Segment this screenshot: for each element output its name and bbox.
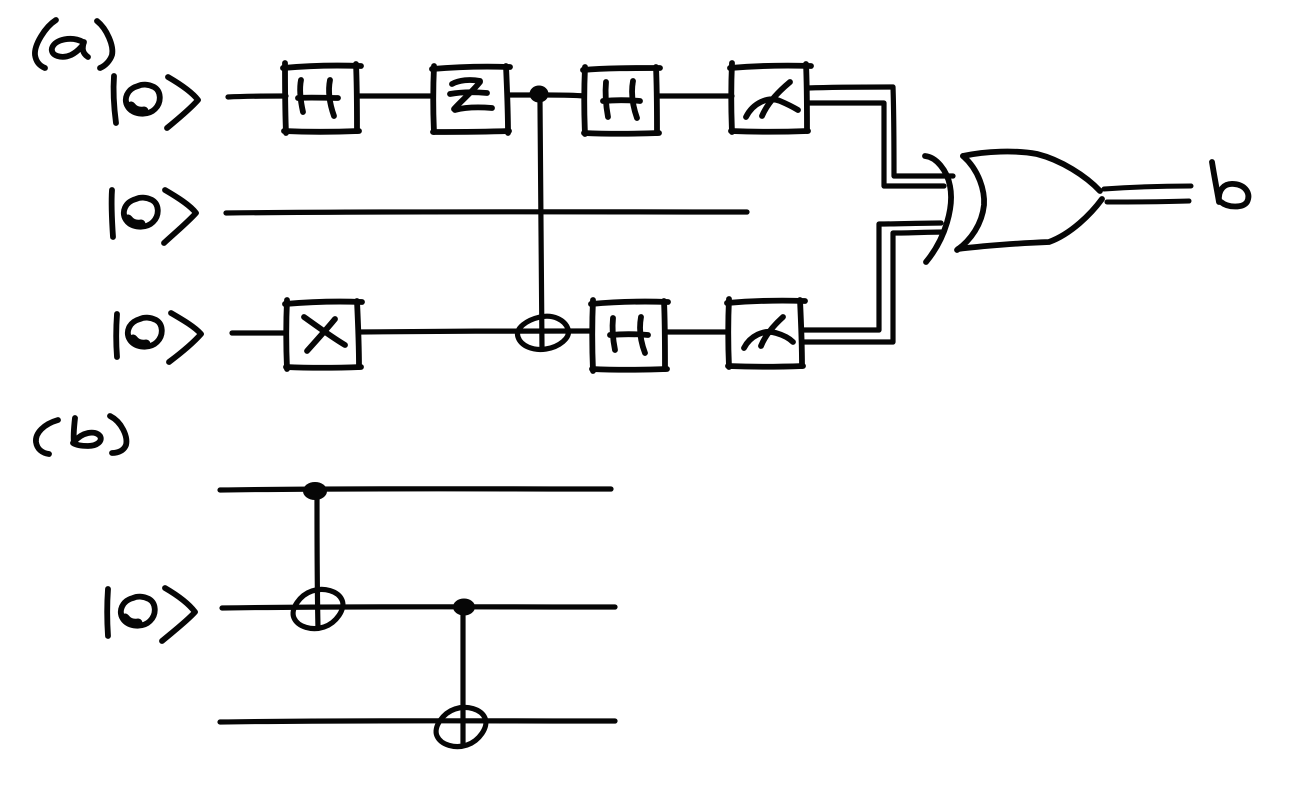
measurement M1 box	[730, 63, 811, 132]
(b) wire line 1	[220, 489, 611, 490]
classical double wire from M1 (outer)	[808, 87, 953, 176]
measurement M2 box	[727, 299, 805, 367]
(b) control dot 1	[303, 482, 327, 500]
classical double wire from M2 (inner)	[803, 232, 944, 342]
wire q3 seg3	[665, 329, 728, 334]
gate Z box	[432, 66, 510, 133]
output label b	[1212, 162, 1248, 207]
wire q1 seg4	[548, 95, 584, 96]
gate H1 box	[283, 63, 361, 133]
ket |0> qubit 2	[112, 190, 196, 243]
measurement M1 dial	[746, 82, 798, 117]
control dot CZ/CNOT	[530, 86, 549, 103]
wire q1 seg3	[508, 92, 531, 97]
wire q1 seg1	[228, 96, 286, 97]
gate H3 letter	[610, 317, 648, 353]
measurement M2 dial	[744, 317, 793, 348]
wire q3 seg1	[232, 330, 286, 335]
wire q1 seg2	[357, 93, 433, 98]
control vertical wire	[540, 102, 542, 349]
gate X box	[285, 300, 362, 369]
gate H2 letter	[603, 81, 640, 118]
ket |0> qubit 1	[114, 76, 198, 128]
label (b)	[36, 416, 126, 454]
gate X letter	[304, 317, 345, 351]
ket |0> qubit 3	[116, 313, 201, 362]
(b) ket |0>	[107, 588, 195, 641]
classical double wire from M1 (inner)	[808, 103, 944, 186]
XOR gate bottom edge	[958, 199, 1102, 249]
label (a)	[35, 20, 112, 68]
(b) control dot 2	[453, 599, 475, 616]
classical double wire from M2 (outer)	[803, 223, 941, 330]
(b) wire line 3	[220, 721, 615, 722]
(b) wire line 2	[222, 607, 615, 608]
wire q2	[226, 212, 747, 213]
gate H1 letter	[298, 80, 338, 116]
gate H3 box	[591, 300, 668, 371]
wire q1 seg5	[657, 93, 732, 98]
(b) CNOT target 2 on line 3	[436, 707, 486, 746]
gate Z letter	[450, 80, 492, 110]
XOR gate top edge	[963, 152, 1100, 191]
gate H2 box	[583, 67, 660, 134]
XOR output double wire	[1104, 186, 1191, 202]
(b) control vertical 1	[317, 496, 318, 628]
(b) control vertical 2	[460, 611, 465, 745]
XOR gate body left arc	[957, 156, 984, 250]
wire q3 seg2	[359, 331, 592, 332]
XOR gate input arc	[925, 156, 951, 262]
(b) CNOT target 1 on line 2	[293, 589, 343, 628]
CNOT target on q3	[518, 316, 569, 349]
